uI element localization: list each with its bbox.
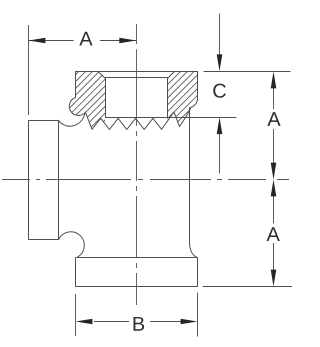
arrow B left xyxy=(76,319,93,325)
arrow A upper-right up xyxy=(271,72,277,89)
chamfer right xyxy=(168,72,175,79)
bottom-left bead arc xyxy=(59,232,85,258)
top-left fillet sweep xyxy=(58,113,85,126)
label A lower right xyxy=(267,227,280,241)
horizontal centerline xyxy=(2,179,289,181)
arrow A lower-right up xyxy=(271,180,277,197)
thread zigzag xyxy=(85,107,190,129)
chamfer left xyxy=(98,72,106,79)
right bottom fillet xyxy=(190,244,198,258)
arrow C down xyxy=(217,54,223,71)
arrowheads xyxy=(29,38,277,325)
arrow A upper-right down xyxy=(271,163,277,180)
arrow A lower-right down xyxy=(271,270,277,287)
arrow A top right xyxy=(119,38,136,44)
bore left wall xyxy=(105,79,107,118)
dim A lower right: stems xyxy=(273,194,275,271)
dim B: extension lines xyxy=(76,293,198,337)
label A upper right xyxy=(267,112,280,126)
centerlines xyxy=(2,24,289,305)
bottom band xyxy=(76,258,198,287)
dim A top: extension line xyxy=(28,25,30,115)
left band xyxy=(29,121,59,240)
bore right wall xyxy=(167,79,169,118)
dim C: upper stem xyxy=(219,14,221,57)
right run wall xyxy=(189,108,191,244)
right notch curve xyxy=(191,100,198,107)
boss right wall xyxy=(197,72,199,100)
labels (Liberation Sans glyph outlines) xyxy=(79,32,280,331)
dim A top: dimension line xyxy=(29,40,137,42)
thread root line (C reference) xyxy=(106,117,237,119)
vertical centerline xyxy=(136,24,138,305)
top face extension line right xyxy=(204,71,291,73)
top-left bead arc xyxy=(69,98,85,116)
dim A upper right: stems xyxy=(273,86,275,164)
dim B: dimension line xyxy=(94,321,181,323)
arrow A top left xyxy=(29,38,46,44)
chamfer edge line xyxy=(106,77,168,79)
label B xyxy=(134,317,145,331)
tee body top face xyxy=(76,71,198,73)
boss left wall xyxy=(75,72,77,98)
dimension lines xyxy=(29,14,293,337)
bottom face extension line right xyxy=(203,286,292,288)
dim C: lower stem xyxy=(219,133,221,174)
arrow B right xyxy=(181,319,198,325)
arrow C up xyxy=(217,117,223,134)
label C xyxy=(213,84,226,98)
label A top xyxy=(79,32,92,46)
